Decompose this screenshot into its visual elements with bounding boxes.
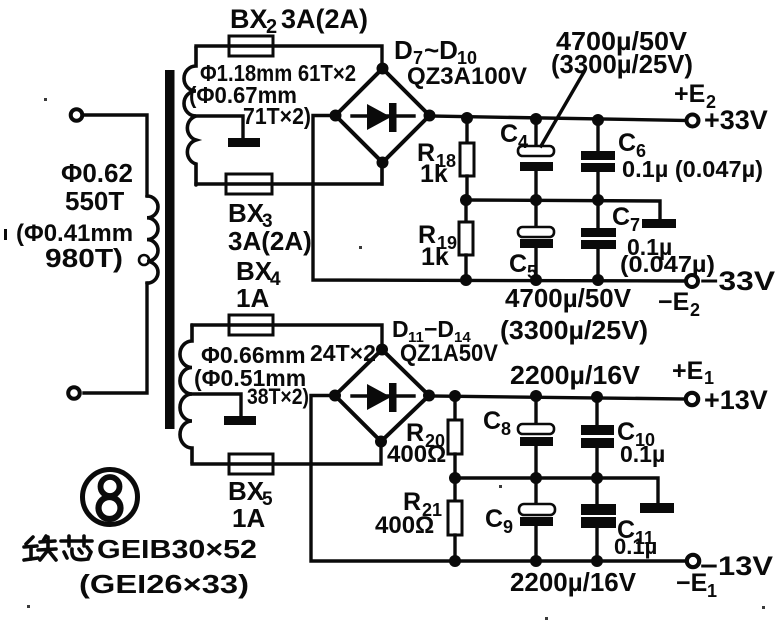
wire mid rail upper (0V) [466,200,660,219]
svg-text:C: C [618,129,636,157]
transformer T1 primary terminal (top) [71,109,83,121]
svg-text:C: C [500,120,518,148]
capacitor C10 [595,396,598,425]
svg-text:+33V: +33V [704,105,768,135]
caption: hanzi XIN (core) [61,536,92,560]
junction dots +13V rail [449,390,461,402]
svg-text:38T×2): 38T×2) [247,384,309,409]
svg-text:(3300µ/25V): (3300µ/25V) [551,49,693,79]
capacitor C8 (electrolytic) [534,396,537,425]
resistor R18 [465,118,468,143]
terminal -E2 [686,275,698,287]
diode symbol inside lower bridge [352,394,414,397]
svg-text:2: 2 [690,300,700,320]
wire +E1 rail [429,396,688,399]
transformer T1 primary terminal (bottom) [68,387,80,399]
svg-text:400Ω: 400Ω [375,512,434,539]
svg-text:0.1µ: 0.1µ [620,441,665,467]
capacitor C11 [595,478,598,505]
capacitor C7 [596,200,599,229]
svg-text:(3300µ/25V): (3300µ/25V) [500,315,648,345]
ground (lower secondary center tap) [224,416,256,425]
junction dots mid rail [460,194,472,206]
junction dots lower bridge vertices [376,344,388,356]
svg-text:BX: BX [230,4,268,34]
fuse BX5 [229,454,273,474]
ground (upper mid rail) [642,219,676,228]
wire lower secondary bottom to bridge [192,446,381,464]
svg-text:4: 4 [518,132,528,152]
svg-text:−13V: −13V [700,551,773,581]
wire +E2 rail [429,116,688,121]
svg-text:0.1µ (0.047µ): 0.1µ (0.047µ) [622,156,763,182]
transformer upper secondary winding [184,47,196,185]
svg-text:4700µ/50V: 4700µ/50V [505,283,632,313]
wire bottom vertex to BX3 line [380,162,383,184]
caption: hanzi TIE (iron) [24,536,56,560]
callout line to C4 [541,72,584,146]
svg-text:BX: BX [228,476,265,506]
stray mark [4,229,7,240]
svg-text:1k: 1k [421,243,449,271]
svg-text:QZ1A50V: QZ1A50V [400,340,498,367]
svg-text:C: C [509,250,527,278]
svg-text:~D: ~D [424,35,458,65]
svg-text:GEIB30×52: GEIB30×52 [97,534,257,564]
svg-text:1k: 1k [420,160,448,188]
transformer T1 primary winding [147,196,158,283]
svg-text:980T): 980T) [45,243,123,273]
svg-text:C: C [483,407,501,435]
terminal -E1 [687,555,699,567]
transformer core [165,70,175,429]
svg-text:BX: BX [236,256,273,286]
svg-text:QZ3A100V: QZ3A100V [407,63,527,90]
svg-text:+E: +E [672,357,703,385]
svg-text:+E: +E [674,80,705,108]
svg-text:(GEI26×33): (GEI26×33) [79,569,249,599]
terminal +E1 [686,393,698,405]
svg-text:D: D [392,316,409,342]
resistor R19 [464,200,467,222]
svg-text:550T: 550T [65,186,124,216]
svg-text:−D: −D [424,316,454,342]
fuse BX3 [226,174,272,194]
svg-text:24T×2: 24T×2 [310,340,376,366]
capacitor C9 (electrolytic) [534,478,537,505]
wire mid rail lower (0V) [455,478,658,503]
svg-text:−E: −E [676,569,707,597]
svg-text:2: 2 [266,16,277,38]
wire lower secondary top to bridge [192,325,382,345]
wire primary bottom lead [84,283,147,393]
svg-text:0.1µ: 0.1µ [614,534,657,559]
bridge rectifier U1 D7~D10 diamond [336,69,430,163]
wire lower center tap [192,394,241,417]
wire upper secondary bottom to bridge [196,167,382,184]
transformer lower secondary winding [180,325,192,463]
svg-text:1A: 1A [232,503,265,533]
svg-text:−33V: −33V [700,266,775,296]
svg-text:8: 8 [501,419,511,439]
svg-text:2200µ/16V: 2200µ/16V [510,567,637,597]
ground (lower mid rail) [640,503,674,513]
svg-text:400Ω: 400Ω [387,441,446,468]
resistor R20 [453,396,456,420]
svg-text:−E: −E [658,288,689,316]
svg-text:9: 9 [503,517,513,537]
ground (upper secondary center tap) [228,138,260,147]
fuse BX4 [229,315,273,335]
fuse BX2 [229,36,273,56]
svg-text:3A(2A): 3A(2A) [228,226,312,256]
wire upper center tap [196,116,243,139]
svg-text:2200µ/16V: 2200µ/16V [510,360,641,390]
svg-text:1A: 1A [236,283,269,313]
resistor R21 [453,478,456,501]
scan specks [27,98,765,620]
svg-text:3A(2A): 3A(2A) [281,4,368,34]
junction dots -13V rail [449,555,461,567]
svg-text:71T×2): 71T×2) [243,103,311,129]
junction dots -33V rail [460,274,472,286]
capacitor C6 [596,120,599,151]
svg-text:C: C [485,505,503,533]
svg-text:BX: BX [228,198,265,228]
wire upper secondary top to bridge [196,46,382,64]
bridge rectifier U2 D11~D14 diamond [335,350,429,442]
primary winding loop artifact [139,255,149,265]
svg-text:C: C [612,203,630,231]
wire -E2 from bridge left vertex [313,116,688,282]
svg-text:D: D [394,35,413,65]
svg-text:7: 7 [630,215,640,235]
figure number circled 8 [83,470,138,525]
junction dots +33V rail [461,112,473,124]
capacitor C4 (electrolytic) [534,119,537,147]
diode symbol inside upper bridge [352,114,414,117]
junction dots lower mid rail [449,472,461,484]
capacitor C5 (electrolytic) [534,200,537,228]
svg-text:Φ0.62: Φ0.62 [61,158,133,188]
svg-text:+13V: +13V [704,385,768,415]
junction dots upper bridge vertices [377,63,389,75]
wire -E1 from bridge left vertex [311,396,688,562]
wire primary top lead [83,115,147,196]
svg-text:4: 4 [270,269,281,290]
svg-text:1: 1 [707,581,717,601]
terminal +E2 [687,115,699,127]
